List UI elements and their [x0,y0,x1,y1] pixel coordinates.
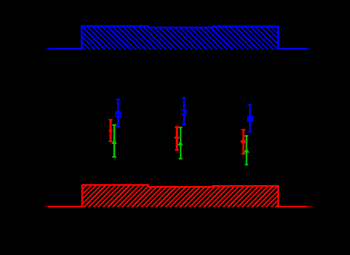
group 2 red errorbar [174,127,180,150]
group 1 green triangle marker [112,139,117,144]
group 2 red diamond marker [174,135,180,140]
group 3 red diamond marker [240,138,246,144]
red line faint right tail [307,206,313,208]
red line faint left tail [46,206,48,208]
red band step outline [82,185,278,207]
red line right segment [278,206,307,208]
group 2 blue errorbar [181,98,187,125]
group 1 red diamond marker [108,129,113,133]
group 3 red errorbar [240,130,246,154]
blue band hatch fill [46,21,340,55]
group 3 blue errorbar [247,105,253,132]
group 2 green triangle marker [178,141,184,146]
group 3 green triangle marker [244,148,250,153]
group 1 green errorbar [112,125,117,157]
blue band step outline / line [48,26,307,49]
group 1 blue errorbar [115,99,121,127]
group 1 blue open square marker [115,111,121,117]
group 3 blue filled square marker [247,116,253,122]
blue line faint right tail [307,48,311,50]
red band hatch fill [50,180,341,212]
group 1 red errorbar [108,120,113,142]
group 3 green errorbar [244,136,250,165]
red line left segment [48,206,82,208]
blue line faint left tail [46,48,49,50]
group 2 blue open square marker [181,109,187,114]
group 2 green errorbar [178,128,184,159]
